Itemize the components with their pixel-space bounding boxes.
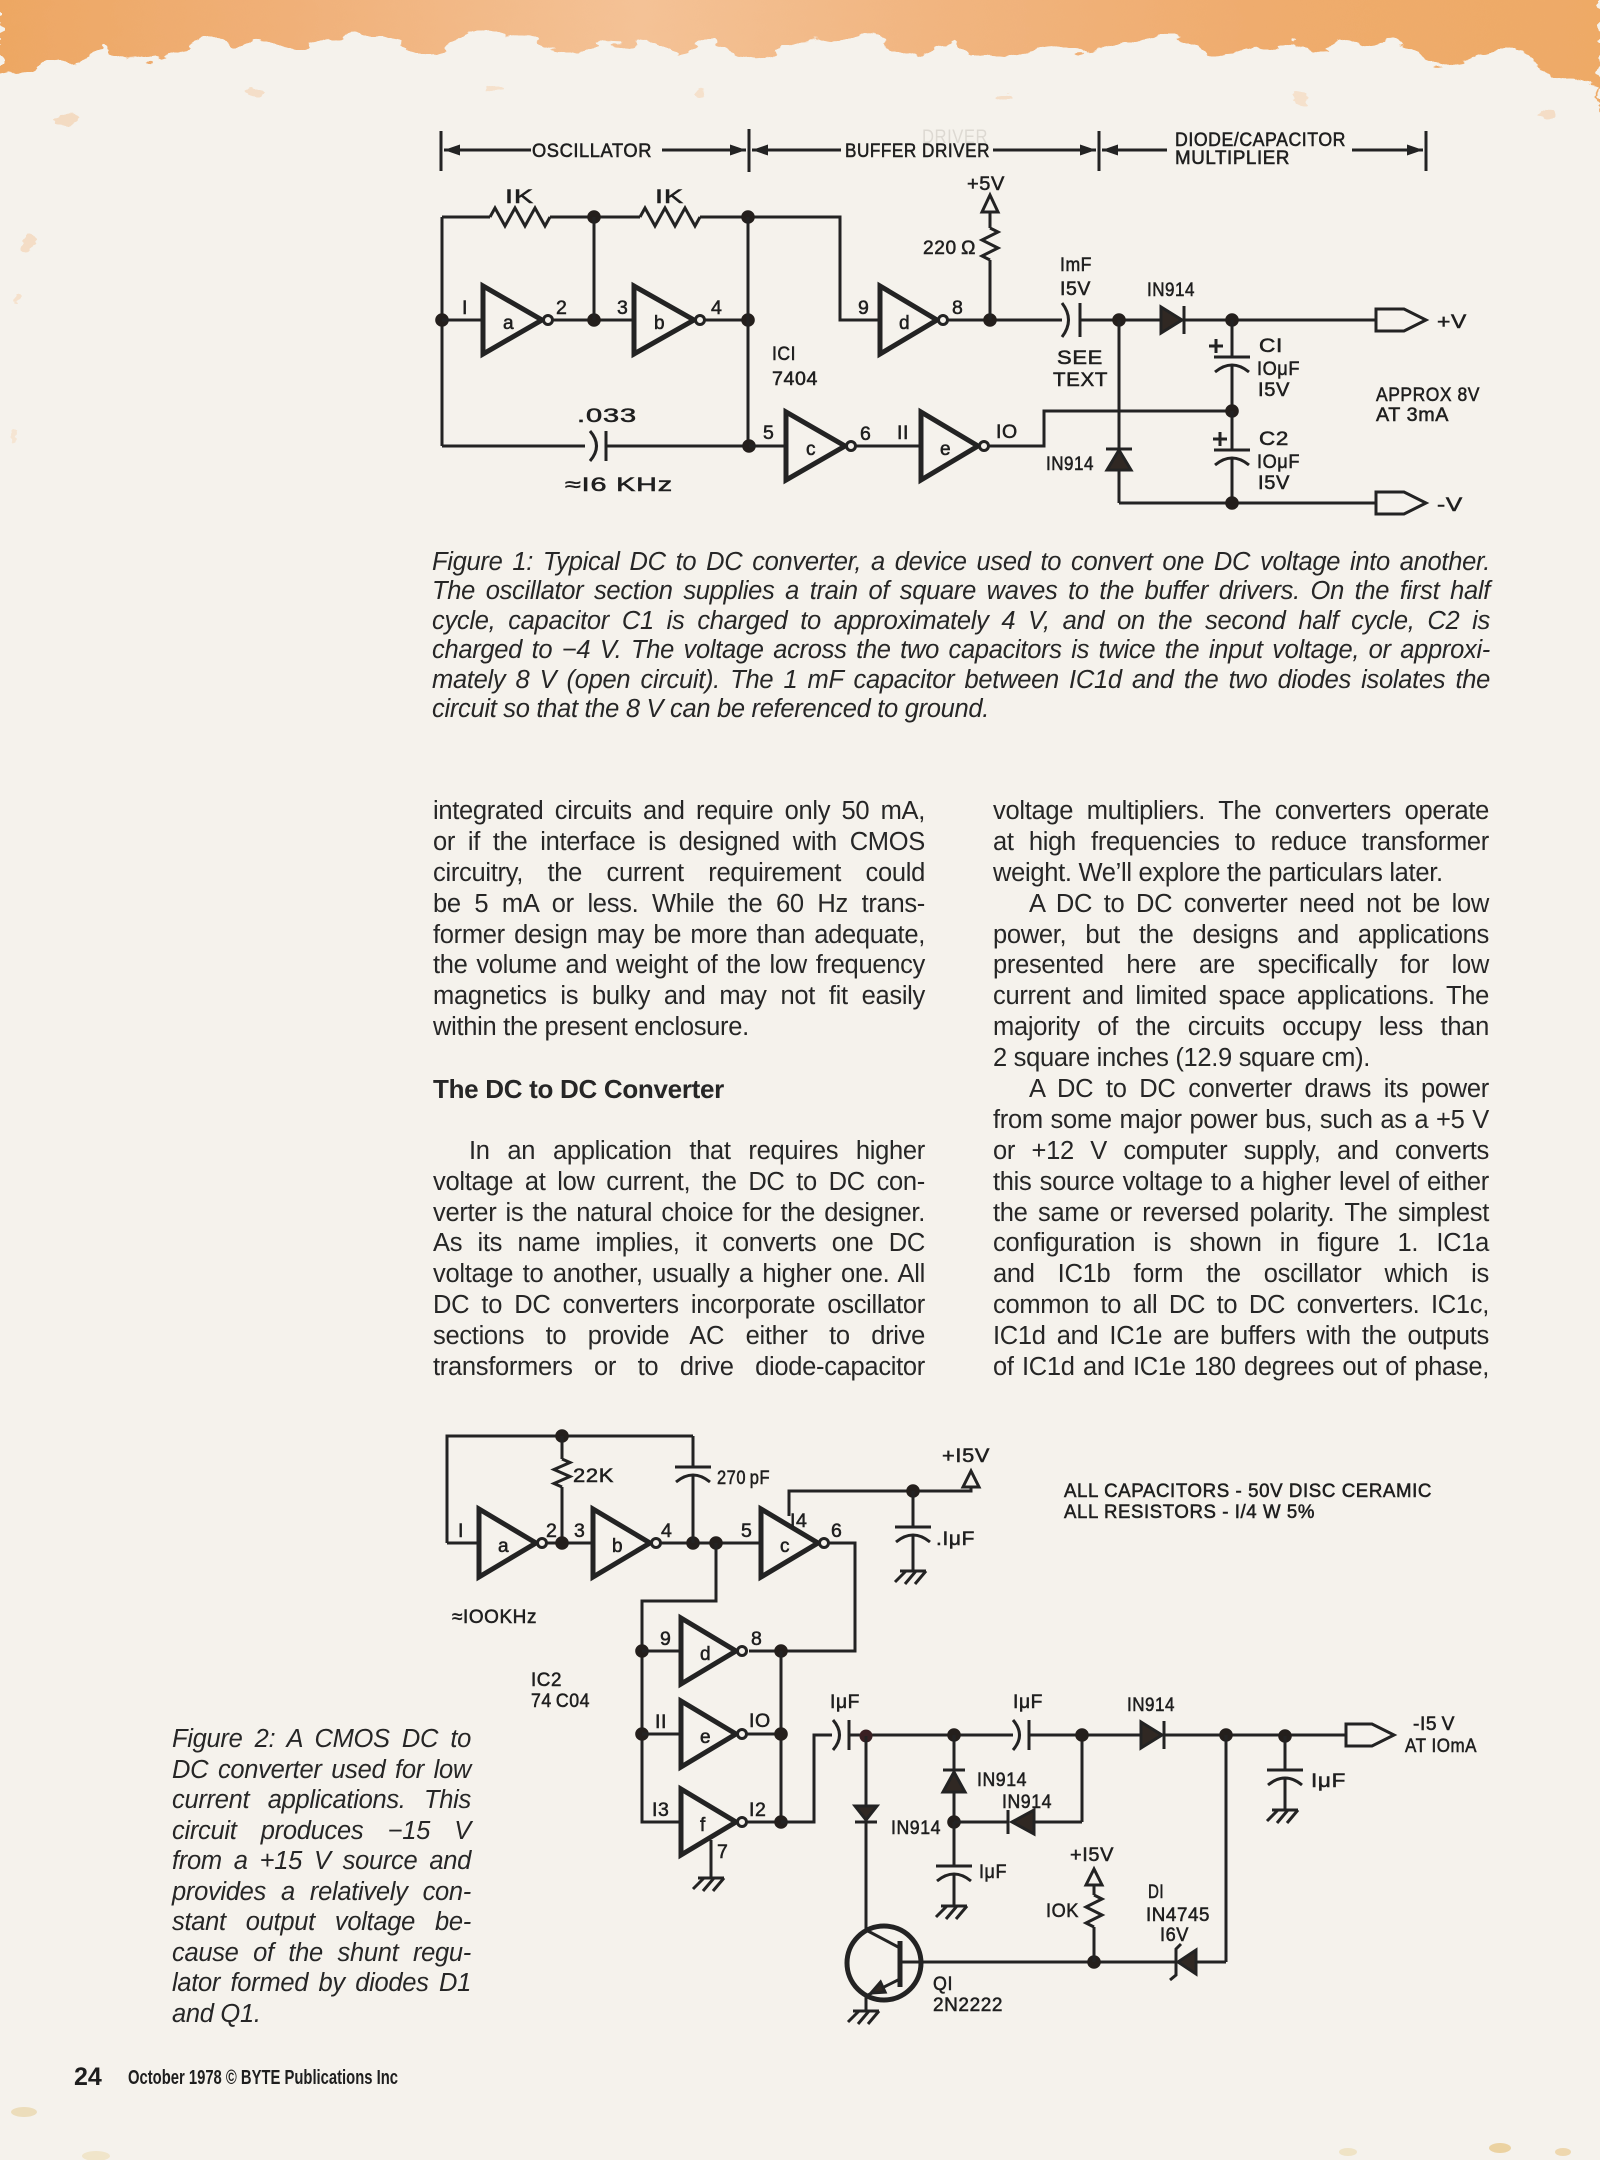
wire 220 ohm to rail [989, 260, 992, 320]
svg-text:MULTIPLIER: MULTIPLIER [1175, 148, 1290, 169]
svg-text:2N2222: 2N2222 [933, 1994, 1003, 2016]
svg-text:5: 5 [763, 422, 774, 444]
wire 10K to base row [1093, 1927, 1096, 1962]
svg-text:9: 9 [858, 297, 869, 319]
svg-text:3: 3 [574, 1520, 585, 1542]
svg-text:d: d [899, 313, 910, 334]
wire left feedback rail [441, 217, 444, 446]
junction dot bypass cap tap [906, 1484, 920, 1498]
svg-text:IN914: IN914 [1147, 279, 1195, 301]
junction dot top rail at IC1a output column [587, 210, 601, 224]
junction dot d input [635, 1644, 649, 1658]
svg-text:I6V: I6V [1160, 1924, 1189, 1946]
wire stub to IC1c [749, 445, 786, 448]
diode 1N914 shunt (pointing up) [1106, 449, 1132, 470]
wire series diode to output [1164, 1734, 1346, 1737]
svg-text:I2: I2 [749, 1799, 766, 1821]
wire top rail right segment [700, 217, 880, 320]
svg-text:IN4745: IN4745 [1146, 1904, 1210, 1926]
wire figure2 top feedback rail [447, 1436, 693, 1543]
wire input stub to IC1a [442, 319, 483, 322]
inverter IC2e [681, 1701, 747, 1767]
svg-text:IμF: IμF [1013, 1691, 1043, 1713]
inverter IC2c [761, 1509, 829, 1577]
figure 1 section ruler tick left [440, 131, 443, 171]
+15V supply arrow (top) [963, 1471, 979, 1487]
svg-text:+5V: +5V [967, 173, 1005, 195]
inverter IC2d [681, 1618, 747, 1684]
diode 1N914 pointing left [1008, 1810, 1034, 1834]
junction dot pump node A [860, 1730, 873, 1743]
capacitor .1uF bypass [895, 1491, 931, 1571]
svg-text:I5V: I5V [1258, 472, 1290, 494]
capacitor 1uF (second) [1013, 1720, 1029, 1750]
svg-text:+I5V: +I5V [942, 1445, 990, 1467]
ground below Q1 emitter [848, 2011, 879, 2024]
svg-text:IO: IO [749, 1710, 771, 1732]
oscillator section arrow line [444, 145, 746, 156]
svg-text:IN914: IN914 [1002, 1791, 1052, 1813]
wire C1 top segment [1231, 320, 1234, 357]
junction dot f output [774, 1815, 788, 1829]
capacitor 1uF coupling (first) [833, 1720, 849, 1750]
svg-text:4: 4 [711, 297, 722, 319]
ground below .1uF [895, 1571, 926, 1584]
svg-text:2: 2 [546, 1520, 557, 1542]
wire -V rail [1119, 502, 1376, 505]
svg-text:ICI: ICI [772, 343, 796, 365]
resistor R 1K (left) [490, 208, 550, 226]
figure 1 section ruler tick right [1425, 131, 1428, 171]
svg-text:e: e [700, 1727, 711, 1748]
svg-text:II: II [655, 1711, 667, 1733]
capacitor 270pF [675, 1436, 711, 1543]
wire node C to left diode [954, 1821, 1007, 1824]
inverter IC1e [921, 412, 989, 480]
svg-text:SEE: SEE [1057, 347, 1103, 369]
svg-text:2: 2 [556, 297, 567, 319]
wire f output [747, 1821, 781, 1824]
stain speckles below band [9, 84, 1552, 441]
wire C2 bottom segment [1231, 458, 1234, 503]
svg-text:I4: I4 [790, 1510, 807, 1532]
wire 22K lower stub [561, 1487, 564, 1543]
wire e output [747, 1733, 781, 1736]
junction dot second cap output [1075, 1728, 1089, 1742]
svg-text:IK: IK [655, 186, 684, 208]
svg-text:I5V: I5V [1258, 379, 1290, 401]
svg-text:IμF: IμF [979, 1861, 1007, 1883]
resistor R 1K (right) [640, 208, 700, 226]
svg-text:IN914: IN914 [1046, 453, 1094, 475]
svg-text:IμF: IμF [1311, 1770, 1346, 1792]
svg-text:OSCILLATOR: OSCILLATOR [532, 141, 652, 162]
svg-text:IOμF: IOμF [1257, 451, 1300, 473]
junction dot 10K bottom [1087, 1955, 1101, 1969]
svg-text:a: a [498, 1536, 509, 1557]
wire C1 bottom segment [1231, 365, 1234, 411]
wire IC1e output over to C1/C2 junction [989, 411, 1226, 446]
junction dot shunt column [1112, 313, 1126, 327]
svg-text:AT IOmA: AT IOmA [1405, 1735, 1477, 1757]
junction dot 270pF bottom [686, 1536, 700, 1550]
wire bottom feedback rail left [442, 445, 585, 448]
svg-text:AT 3mA: AT 3mA [1376, 404, 1449, 426]
wire d/e/f output bus [780, 1651, 783, 1822]
svg-text:7: 7 [717, 1841, 728, 1863]
svg-text:270 pF: 270 pF [717, 1467, 770, 1489]
wire IC1c to IC1e [856, 445, 921, 448]
svg-text:TEXT: TEXT [1053, 369, 1108, 391]
wire node C down to 1uF shunt cap [953, 1822, 956, 1866]
ground below shunt cap [936, 1906, 967, 1919]
pin 7 stub and label [711, 1840, 728, 1878]
svg-text:C2: C2 [1259, 428, 1289, 450]
svg-text:7404: 7404 [772, 368, 818, 390]
junction dot 22K bottom [555, 1536, 569, 1550]
svg-text:ALL CAPACITORS - 50V DISC CERA: ALL CAPACITORS - 50V DISC CERAMIC [1064, 1481, 1432, 1502]
wire stub d input [642, 1650, 681, 1653]
ground below pin 7 [693, 1878, 724, 1891]
svg-text:c: c [806, 439, 816, 460]
svg-text:-I5 V: -I5 V [1413, 1713, 1455, 1735]
inverter IC1d [880, 286, 948, 354]
resistor 22K [554, 1459, 570, 1487]
svg-text:74 C04: 74 C04 [531, 1690, 590, 1712]
diode 1N914 pointing up [943, 1770, 965, 1792]
wire input stub to IC2a [447, 1542, 479, 1545]
junction dot e output [774, 1727, 788, 1741]
svg-text:II: II [897, 422, 909, 444]
wire IC1d output to coupling cap [948, 319, 1062, 322]
junction dot regulator column [1219, 1728, 1233, 1742]
wire pin14 to +15V [789, 1486, 971, 1516]
svg-text:6: 6 [831, 1520, 842, 1542]
junction dot at 220 ohm tap [983, 313, 997, 327]
svg-text:IN914: IN914 [891, 1817, 941, 1839]
body text left column [433, 796, 925, 1383]
resistor 10K [1086, 1895, 1102, 1927]
junction dot buffer tap [709, 1536, 723, 1550]
svg-text:APPROX 8V: APPROX 8V [1376, 384, 1480, 406]
wire bottom feedback rail right [606, 445, 749, 448]
capacitor 1uF output filter [1267, 1736, 1303, 1810]
wire emitter to ground [865, 1996, 868, 2011]
svg-text:f: f [700, 1815, 706, 1836]
svg-text:-V: -V [1437, 494, 1463, 516]
svg-text:I5V: I5V [1060, 278, 1091, 300]
junction dot node B [947, 1728, 961, 1742]
diode 1N914 series output [1141, 1721, 1164, 1749]
svg-text:IN914: IN914 [1127, 1694, 1175, 1716]
svg-text:I3: I3 [652, 1799, 669, 1821]
svg-text:≈IOOKHz: ≈IOOKHz [452, 1606, 537, 1628]
bottom edge faint stains [11, 2107, 1571, 2160]
wire shunt diode to -V rail [1118, 470, 1121, 503]
inverter IC2a [479, 1509, 547, 1577]
svg-text:IOK: IOK [1046, 1900, 1079, 1922]
svg-text:b: b [612, 1536, 623, 1557]
svg-text:c: c [780, 1536, 790, 1557]
junction dot 22K top [555, 1429, 569, 1443]
wire b-output tap down to d/e/f inputs [642, 1543, 716, 1822]
inverter IC2f [681, 1789, 747, 1855]
svg-text:.IμF: .IμF [936, 1528, 975, 1550]
svg-text:22K: 22K [573, 1465, 614, 1487]
svg-text:5: 5 [741, 1520, 752, 1542]
figure 1 caption [432, 548, 1490, 724]
diode 1N914 series [1161, 306, 1184, 334]
capacitor .033 [590, 431, 606, 461]
svg-text:IOμF: IOμF [1257, 358, 1300, 380]
zener diode D1 [1170, 1944, 1196, 1980]
svg-text:DI: DI [1148, 1881, 1164, 1903]
figure 2 caption [172, 1724, 471, 2029]
inverter IC1c [786, 412, 856, 480]
svg-text:CI: CI [1259, 335, 1283, 357]
svg-text:4: 4 [661, 1520, 672, 1542]
wire IC2a to IC2b [547, 1542, 593, 1545]
+15V supply arrow (bias) [1086, 1869, 1102, 1885]
svg-text:≈I6 KHz: ≈I6 KHz [565, 474, 673, 496]
junction dot node C [947, 1815, 961, 1829]
svg-text:IN914: IN914 [977, 1769, 1027, 1791]
svg-text:IμF: IμF [830, 1691, 860, 1713]
svg-text:IC2: IC2 [531, 1669, 562, 1691]
wire C2 top segment [1231, 411, 1234, 450]
-15V output arrow [1346, 1724, 1394, 1746]
svg-text:3: 3 [617, 297, 628, 319]
inverter IC2b [593, 1509, 661, 1577]
wire top rail middle segment [550, 216, 640, 219]
top orange stain band [0, 0, 1600, 195]
junction dot top rail at IC1b output column [741, 210, 755, 224]
+5V supply arrow [982, 195, 998, 228]
svg-text:DRIVER: DRIVER [922, 127, 988, 148]
svg-text:QI: QI [933, 1973, 953, 1995]
+V output arrow [1376, 309, 1426, 331]
diode 1N914 shunt down (left) [855, 1806, 877, 1822]
svg-text:8: 8 [952, 297, 963, 319]
svg-text:e: e [940, 439, 951, 460]
wire IC1a output to IC1b input [553, 319, 634, 322]
junction dot C2 bottom [1225, 496, 1239, 510]
transistor Q1 [847, 1926, 921, 2000]
svg-text:I: I [462, 297, 468, 319]
capacitor 1uF shunt to ground [936, 1866, 972, 1906]
svg-text:IK: IK [505, 186, 534, 208]
figure 1 section ruler tick 2 [748, 129, 751, 172]
wire cap to diode [1080, 319, 1161, 322]
junction dot d output [774, 1644, 788, 1658]
-V output arrow [1376, 492, 1426, 514]
wire second cap column [1081, 1735, 1084, 1822]
inverter IC1a [483, 286, 553, 354]
inverter IC1b [634, 286, 705, 354]
svg-text:220 Ω: 220 Ω [923, 237, 976, 259]
junction dot output filter tap [1278, 1729, 1292, 1743]
junction dot at IC1b output column [741, 313, 755, 327]
wire cap to pump node [849, 1734, 1013, 1737]
wire vertical 1K left tap [593, 217, 596, 320]
wire node A down to shunt diode [865, 1736, 868, 1806]
capacitor 1mF coupling [1062, 303, 1080, 337]
svg-text:a: a [503, 313, 514, 334]
svg-text:b: b [654, 313, 665, 334]
wire up diode to node C [953, 1792, 956, 1822]
wire zener row left segment to base [900, 1961, 1176, 1964]
wire arrow to 10K [1093, 1885, 1096, 1895]
wire left diode to second cap column [1034, 1821, 1082, 1824]
junction dot C1 top [1225, 313, 1239, 327]
page number and footer [74, 2063, 102, 2092]
buffer driver section arrow line [752, 145, 1096, 156]
resistor 220 ohm [982, 228, 998, 260]
wire node B down to up diode [953, 1735, 956, 1770]
wire regulator column down [1225, 1735, 1228, 1962]
wire stub e input [642, 1733, 681, 1736]
wire zener row right segment [1196, 1961, 1226, 1964]
capacitor C2 [1213, 432, 1250, 465]
wire shunt diode to Q1 collector [865, 1822, 868, 1929]
svg-text:6: 6 [860, 423, 871, 445]
junction dot between C1 and C2 [1225, 404, 1239, 418]
svg-text:d: d [700, 1644, 711, 1665]
svg-text:I: I [458, 1520, 464, 1542]
wire IC2b output to IC2c input [661, 1542, 761, 1545]
figure 1 section ruler tick 3 [1098, 131, 1101, 171]
svg-text:.033: .033 [577, 405, 637, 427]
svg-text:9: 9 [660, 1628, 671, 1650]
wire vertical 1K right tap down to cap rail [747, 217, 750, 446]
wire f output over and up to coupling cap [781, 1735, 832, 1822]
body text right column [993, 796, 1489, 1383]
wire second cap to series diode [1029, 1734, 1141, 1737]
wire top rail left segment [442, 216, 490, 219]
svg-text:ALL RESISTORS - I/4 W 5%: ALL RESISTORS - I/4 W 5% [1064, 1502, 1315, 1523]
wire diode to +V [1184, 319, 1376, 322]
wire IC2c output down to d output node [749, 1543, 855, 1651]
junction dot at IC1a output column [587, 313, 601, 327]
junction dot e input [635, 1727, 649, 1741]
junction dot bottom rail at IC1c input [742, 439, 756, 453]
capacitor C1 [1209, 339, 1250, 372]
junction dot left rail at pin 1 [435, 313, 449, 327]
diode/capacitor multiplier section arrow line [1102, 145, 1423, 156]
ground below output filter cap [1267, 1810, 1298, 1823]
wire 22K upper stub [561, 1436, 564, 1459]
svg-text:ImF: ImF [1060, 254, 1092, 276]
svg-text:IO: IO [996, 421, 1018, 443]
svg-text:8: 8 [751, 1628, 762, 1650]
svg-text:+I5V: +I5V [1070, 1844, 1114, 1866]
wire shunt diode column [1118, 320, 1121, 448]
svg-text:+V: +V [1437, 311, 1467, 333]
wire IC1b output [705, 319, 748, 322]
